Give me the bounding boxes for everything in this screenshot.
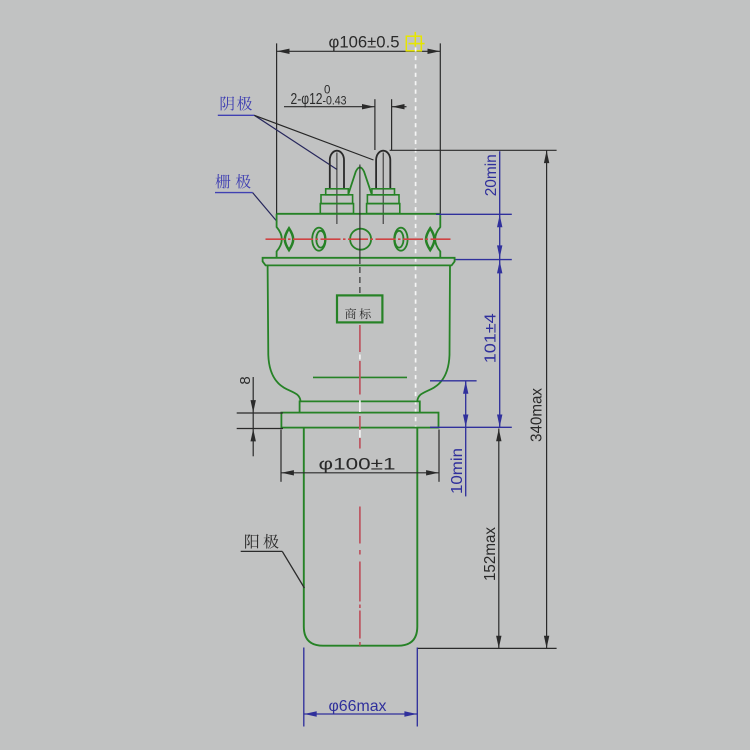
dimension 2-φ12 : left arrow (outside) xyxy=(362,104,375,109)
label 阴极 leader to left pin xyxy=(254,115,337,169)
340max top arrow xyxy=(544,151,549,164)
grid ring hole 2 outer ellipse xyxy=(312,228,325,251)
grid ring left side with hole notch xyxy=(277,214,282,258)
152max top arrow xyxy=(496,429,501,442)
svg-text:-0.43: -0.43 xyxy=(323,95,347,107)
8-dim extension line below flange xyxy=(237,428,283,430)
φ66max right arrow xyxy=(404,711,417,716)
extension line at pin tops (y=150) xyxy=(390,149,557,151)
svg-text:340max: 340max xyxy=(529,388,546,442)
grid ring hole 2 inner bore ellipse xyxy=(316,231,325,248)
340max bottom arrow xyxy=(544,636,549,649)
dimension 2-φ12 : dimension line under text xyxy=(284,106,375,108)
anode cylinder xyxy=(304,428,418,646)
blue extension line at skirt bottom (y=380.7) xyxy=(430,380,477,382)
label 阳极 leader to anode xyxy=(282,551,304,588)
dimension φ106±0.5 : right arrow xyxy=(428,49,441,54)
svg-text:8: 8 xyxy=(237,376,254,384)
svg-text:101±4: 101±4 xyxy=(483,313,500,363)
8-dim dimension line xyxy=(252,377,254,456)
selection grip (yellow square) xyxy=(406,36,421,51)
label 阳极 (anode) text xyxy=(245,534,259,548)
cathode pin right centerline xyxy=(382,153,384,225)
pin base right, step 1 xyxy=(372,189,395,195)
trademark text 商标 xyxy=(345,308,356,319)
blue extension line at lip top (y=259.5) xyxy=(456,259,512,261)
φ66max dimension line xyxy=(304,713,418,715)
φ66max extension line right xyxy=(416,648,418,727)
svg-text:10min: 10min xyxy=(449,448,466,494)
152max dimension line xyxy=(498,429,500,649)
grid ring hole 4 inner bore ellipse xyxy=(395,231,404,248)
grid ring red centerline xyxy=(266,238,452,240)
label 栅极 (grid) text xyxy=(216,174,231,189)
label 栅极 leader to grid ring xyxy=(253,193,278,222)
grid ring hole 4 outer ellipse xyxy=(394,228,407,251)
selection grip crosshair xyxy=(409,43,425,45)
arrow above lip-top line xyxy=(497,245,502,258)
envelope skirt inner edge xyxy=(313,376,407,378)
φ100 right arrow xyxy=(426,470,439,475)
blue extension line at ring top (y=214) xyxy=(436,213,512,215)
dimension φ106±0.5 : left arrow xyxy=(277,49,290,54)
exhaust tip cone xyxy=(348,167,371,194)
φ100 extension line right xyxy=(438,430,440,482)
pin base left, step 2 xyxy=(321,195,353,204)
pin base left, step 1 xyxy=(326,189,349,195)
svg-text:φ66max: φ66max xyxy=(329,698,387,715)
φ66max left arrow xyxy=(304,711,317,716)
blue dimension line x=499.7 (20min + 101±4) xyxy=(499,151,501,427)
arrow below ring-top line (outside, for 20min) xyxy=(497,215,502,228)
grid ring top edge xyxy=(277,213,441,215)
φ100 extension line left xyxy=(280,430,282,482)
φ100 dimension line xyxy=(281,472,439,474)
φ66max extension line left xyxy=(303,648,305,727)
152max bottom arrow xyxy=(496,636,501,649)
8-dim upper outside arrow xyxy=(251,400,256,413)
label 栅极 underline xyxy=(215,192,253,194)
grid ring hole 5 (far right, almond bore) xyxy=(426,228,434,250)
main centerline, red dash-dot segments xyxy=(359,325,361,352)
10min top arrow xyxy=(463,381,468,394)
svg-text:φ100±1: φ100±1 xyxy=(319,454,396,473)
envelope lip xyxy=(263,258,455,266)
pin base right, step 2 xyxy=(367,195,399,204)
cathode pin left centerline xyxy=(336,153,338,225)
label 阴极 leader to right pin xyxy=(254,115,373,160)
cathode pin left outline xyxy=(330,151,344,189)
dimension 2-φ12 : extension line right xyxy=(391,99,393,150)
envelope bowl left side + skirt curve xyxy=(268,265,301,401)
blue extension line at flange bottom (y=427.3) xyxy=(430,426,512,428)
arrow at flange bottom (for 101±4) xyxy=(497,415,502,428)
extension line at tube bottom (y=648.5) xyxy=(418,647,557,649)
collar (stem press) xyxy=(300,401,420,412)
8-dim lower outside arrow xyxy=(251,429,256,442)
dimension φ106±0.5 : extension line right xyxy=(439,43,441,214)
mounting flange xyxy=(281,413,438,428)
grid ring right side with hole notch xyxy=(435,214,440,258)
label 阴极 (cathode) text xyxy=(221,96,235,110)
dimension 2-φ12 : extension line left xyxy=(374,99,376,150)
cathode pin right outline xyxy=(376,151,390,189)
svg-text:2-φ12: 2-φ12 xyxy=(291,91,323,108)
main centerline, white dash segments xyxy=(359,355,361,360)
dimension 2-φ12 : dimension line right stub xyxy=(392,106,407,108)
svg-text:20min: 20min xyxy=(483,154,500,196)
φ100 left arrow xyxy=(281,470,294,475)
main centerline, black solid upper part xyxy=(359,165,361,265)
label 阴极 underline xyxy=(218,114,255,116)
pin base right, step 3 xyxy=(367,204,400,214)
svg-text:152max: 152max xyxy=(482,527,499,581)
envelope bowl right side + skirt curve xyxy=(417,265,450,401)
grid ring hole 1 (far left, almond bore) xyxy=(285,228,293,250)
label 阳极 underline xyxy=(241,550,283,552)
8-dim extension line at flange top xyxy=(237,412,283,414)
trademark box xyxy=(337,295,382,322)
grid ring hole 3 (center) xyxy=(350,229,371,250)
10min bottom arrow xyxy=(463,415,468,428)
10min dimension line xyxy=(465,381,467,497)
main centerline, black dashed through ring xyxy=(359,267,361,293)
dimension φ106±0.5 : extension line left xyxy=(276,43,278,215)
340max dimension line xyxy=(546,150,548,648)
dimension 2-φ12 : right arrow (outside) xyxy=(392,104,405,109)
svg-text:φ106±0.5: φ106±0.5 xyxy=(329,32,400,51)
dimension φ106±0.5 : dimension line xyxy=(277,50,441,52)
pin base left, step 3 xyxy=(320,204,353,214)
highlighted (selected) extension line, white dashed xyxy=(415,48,417,429)
arrow below lip-top line (for 101±4) xyxy=(497,261,502,274)
